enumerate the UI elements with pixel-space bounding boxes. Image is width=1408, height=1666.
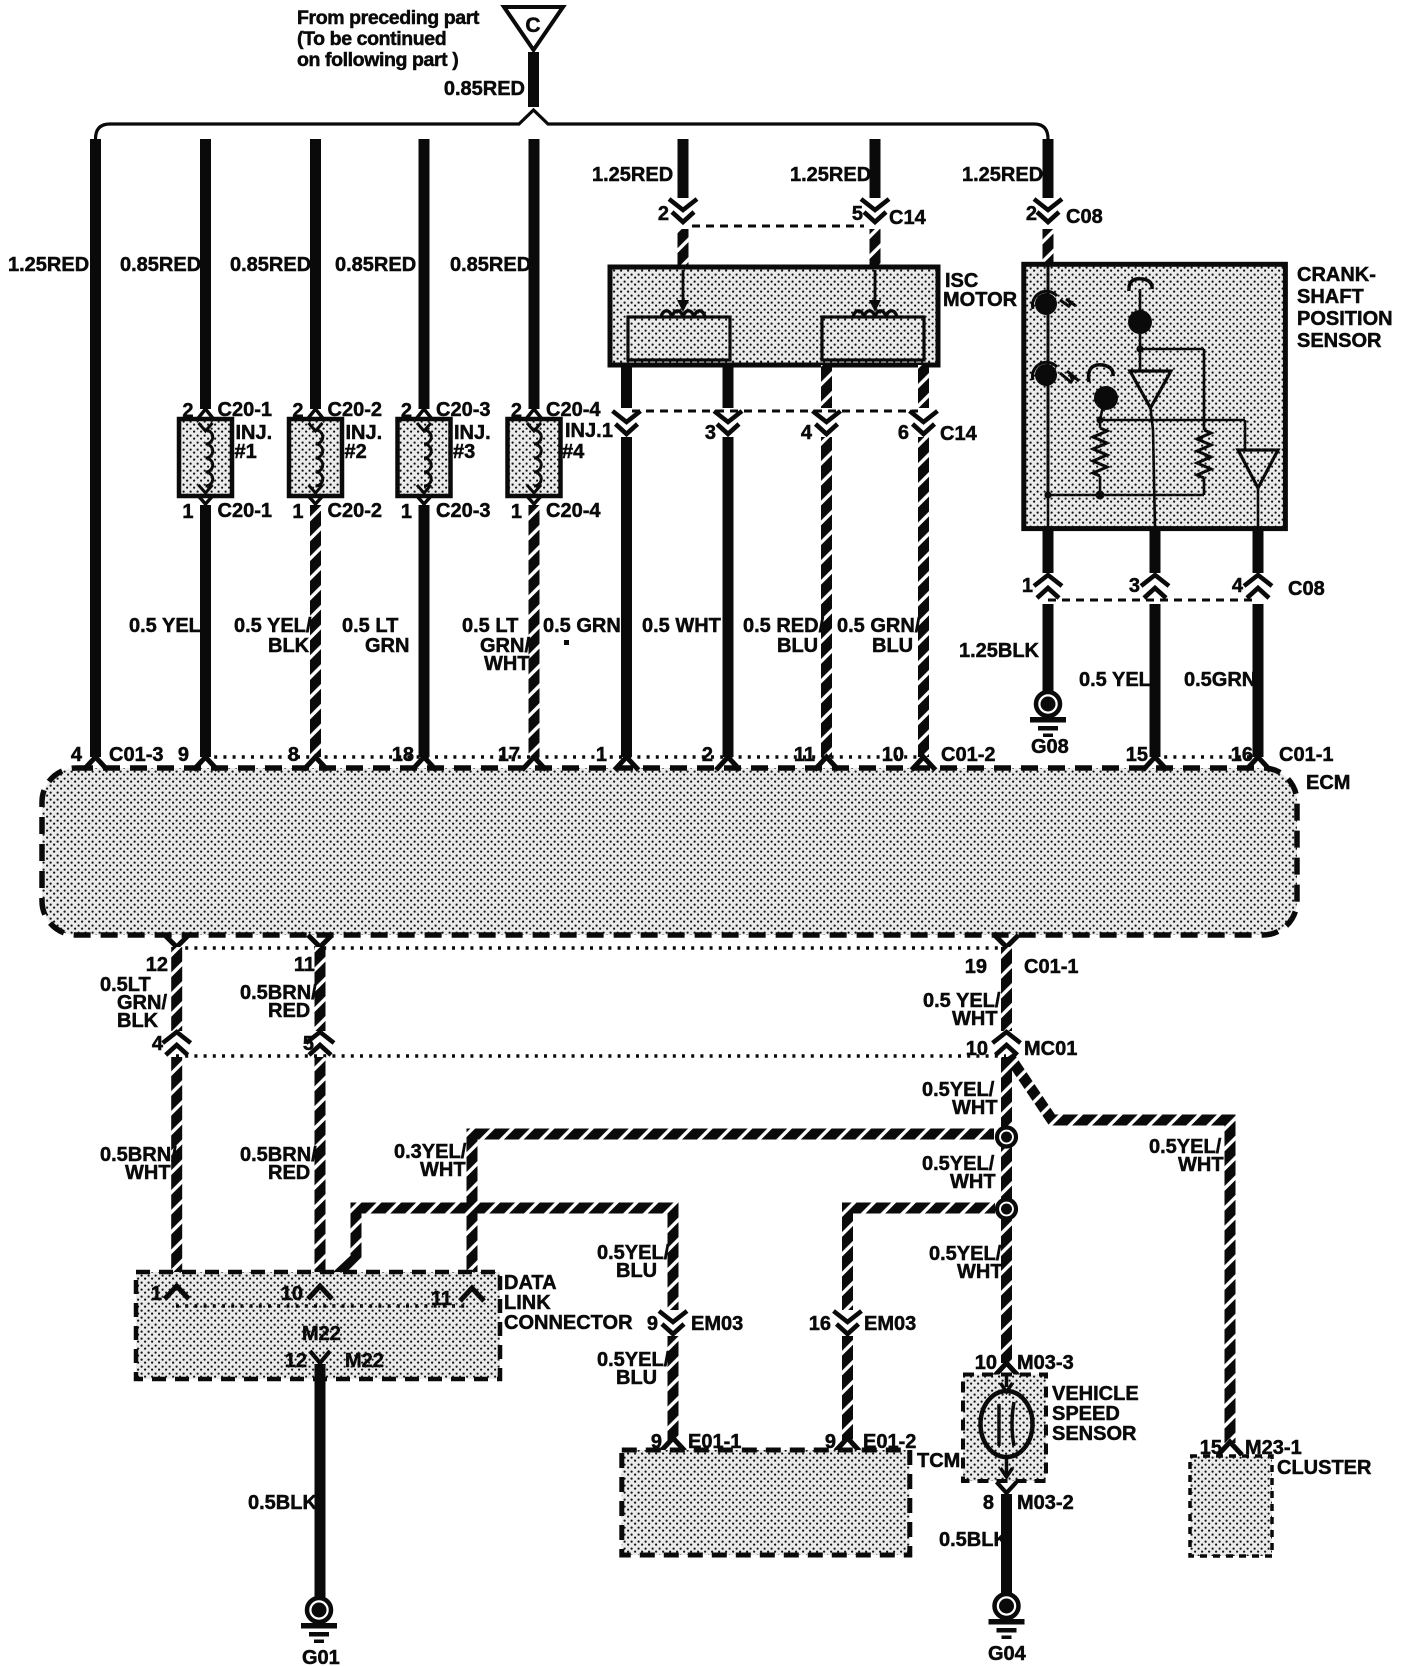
svg-text:C20-4: C20-4	[546, 500, 601, 522]
svg-text:C01-3: C01-3	[109, 744, 163, 766]
ECM pin 8 terminal	[288, 744, 328, 770]
label C01-1 (bottom)	[1024, 956, 1078, 978]
injector INJ #1 pin 1 chevron	[198, 495, 214, 504]
svg-text:SENSOR: SENSOR	[1297, 330, 1382, 352]
svg-text:CRANK-: CRANK-	[1297, 264, 1376, 286]
svg-text:WHT: WHT	[1178, 1154, 1224, 1176]
connector C14 pin 3 chevron	[714, 411, 742, 434]
svg-text:EM03: EM03	[864, 1313, 916, 1335]
ECM pin 18 terminal	[392, 744, 436, 770]
wire 0.5YEL/BLU (EM03 9 to TCM)	[668, 1336, 679, 1440]
label C14	[940, 423, 978, 445]
label TCM	[917, 1450, 960, 1472]
injector INJ #2 name label	[345, 422, 383, 463]
data link connector body	[136, 1272, 500, 1379]
ISC motor (idle speed control)	[610, 267, 938, 365]
label pin 3	[705, 422, 716, 444]
svg-text:0.5 LT: 0.5 LT	[462, 615, 518, 637]
wire to ISC coil B	[870, 229, 881, 268]
label C01-1	[1279, 744, 1333, 766]
label 0.5LT GRN/BLK	[100, 974, 167, 1032]
wire 0.5BRN/RED (ECM 11 to MC01 5)	[315, 947, 326, 1031]
svg-text:5: 5	[852, 203, 863, 225]
VSS pin 10 M03-3 terminal	[975, 1352, 1074, 1376]
svg-text:0.5 YEL: 0.5 YEL	[1079, 669, 1151, 691]
svg-text:WHT: WHT	[420, 1159, 466, 1181]
TCM module body	[622, 1450, 910, 1555]
svg-text:10: 10	[882, 744, 904, 766]
wire ISC out pin 3	[723, 365, 734, 408]
svg-text:C14: C14	[940, 423, 978, 445]
svg-text:10: 10	[281, 1283, 303, 1305]
svg-text:WHT: WHT	[950, 1171, 996, 1193]
svg-text:1: 1	[602, 420, 613, 442]
svg-text:17: 17	[498, 744, 520, 766]
svg-text:RED: RED	[268, 1000, 310, 1022]
svg-text:18: 18	[392, 744, 414, 766]
svg-text:16: 16	[809, 1313, 831, 1335]
svg-text:1.25RED: 1.25RED	[8, 254, 89, 276]
label 0.5YEL/BLU (lower)	[597, 1349, 670, 1389]
injector INJ #2 connector pin 2 label	[292, 399, 382, 422]
label 0.85RED	[335, 254, 416, 276]
svg-text:#2: #2	[345, 441, 367, 463]
off-page connector C (triangle)	[504, 7, 563, 50]
svg-text:0.5GRN: 0.5GRN	[1184, 669, 1256, 691]
junction (splice) on 0.5YEL/WHT	[997, 1128, 1016, 1147]
injector INJ #2 pin 2 chevron	[308, 409, 324, 419]
label C14	[889, 207, 927, 229]
wire 0.5 LT GRN/WHT (INJ #4 to ECM pin 17)	[529, 505, 540, 757]
ground G04	[988, 1594, 1027, 1665]
svg-text:12: 12	[285, 1350, 307, 1372]
ECM pin 19 terminal	[965, 935, 1019, 978]
label 0.5BLK	[248, 1492, 317, 1514]
svg-text:1: 1	[292, 501, 303, 523]
ground G01	[301, 1598, 340, 1666]
ECM pin 9 terminal	[178, 744, 218, 770]
connector MC01 dotted link	[176, 1054, 1006, 1057]
svg-text:0.5 YEL: 0.5 YEL	[129, 615, 201, 637]
svg-text:0.85RED: 0.85RED	[335, 254, 416, 276]
label C08	[1066, 206, 1103, 228]
injector INJ #1 name label	[235, 422, 273, 463]
DLC pins dotted link	[176, 1304, 469, 1307]
connector C08 pin 1 chevron	[1034, 575, 1062, 598]
label 0.5 YEL/WHT	[923, 990, 1001, 1030]
wire 1.25RED stub (ISC coil B)	[870, 139, 881, 198]
svg-text:11: 11	[431, 1288, 452, 1310]
wire ISC out pin 1	[621, 365, 632, 408]
connector MC01 pin 4 chevron	[152, 1032, 191, 1055]
connector C08 dashed link	[1048, 599, 1258, 602]
svg-text:BLK: BLK	[117, 1010, 159, 1032]
svg-text:SPEED: SPEED	[1052, 1403, 1120, 1425]
svg-text:BLU: BLU	[777, 635, 818, 657]
label CLUSTER	[1277, 1457, 1372, 1479]
wire 0.5BLK (DLC 12 to ground G01)	[315, 1364, 326, 1597]
label 0.5 YEL/BLK	[234, 615, 312, 657]
svg-text:VEHICLE: VEHICLE	[1052, 1383, 1139, 1405]
svg-text:CONNECTOR: CONNECTOR	[504, 1312, 633, 1334]
wire DLC10/EM03 rail	[325, 1208, 995, 1310]
label pin 1	[602, 420, 613, 442]
svg-text:1.25RED: 1.25RED	[592, 164, 673, 186]
svg-text:2: 2	[658, 203, 669, 225]
wire crank pin 3	[1150, 528, 1161, 573]
svg-text:WHT: WHT	[484, 653, 530, 675]
injector INJ #3 connector pin 1 label	[401, 500, 491, 523]
svg-text:16: 16	[1231, 744, 1253, 766]
label 0.5 YEL	[1079, 669, 1151, 691]
injector INJ #4 pin 2 chevron	[526, 409, 542, 419]
label 0.5BLK	[939, 1529, 1008, 1551]
TCM pin E01-1 terminal	[651, 1431, 742, 1453]
label 0.5 WHT	[642, 615, 721, 637]
label 0.5BRN/RED	[240, 982, 317, 1022]
label 0.5 LT GRN	[342, 615, 409, 657]
wire 0.5 YEL/BLK (INJ #2 to ECM pin 8)	[310, 505, 321, 757]
wire 1.25RED (to ECM pin 4)	[90, 139, 101, 757]
label 0.5YEL/WHT	[922, 1079, 998, 1119]
label pin 6	[898, 422, 909, 444]
svg-text:C01-1: C01-1	[1024, 956, 1078, 978]
svg-text:TCM: TCM	[917, 1450, 960, 1472]
ground G08	[1030, 692, 1069, 758]
svg-text:19: 19	[965, 956, 987, 978]
svg-text:9: 9	[647, 1313, 658, 1335]
connector C14 pin 2 chevron	[669, 199, 697, 222]
wire branch to cluster (diagonal + across + down)	[1009, 1056, 1230, 1443]
wire 1.25RED stub (crank sensor)	[1043, 139, 1054, 198]
svg-text:M03-3: M03-3	[1017, 1352, 1074, 1374]
DLC pin 11 terminal	[431, 1288, 484, 1310]
connector C14 dashed link (lower)	[632, 410, 918, 413]
wire 0.5 LT GRN (INJ #3 to ECM pin 18)	[419, 505, 430, 757]
label pin 3	[1129, 575, 1140, 597]
ECM pin 4 terminal	[71, 744, 108, 770]
svg-text:11: 11	[794, 744, 815, 766]
label pin 4	[1232, 575, 1244, 597]
svg-text:BLK: BLK	[268, 635, 310, 657]
crankshaft position sensor	[1024, 264, 1286, 528]
label M22 (connector)	[302, 1323, 341, 1345]
connector C14 pin 4 chevron	[813, 411, 841, 434]
svg-text:RED: RED	[268, 1162, 310, 1184]
label 0.5GRN	[1184, 669, 1256, 691]
svg-text:0.5 WHT: 0.5 WHT	[642, 615, 721, 637]
svg-text:0.5 LT: 0.5 LT	[342, 615, 398, 637]
svg-text:WHT: WHT	[952, 1097, 998, 1119]
label C01-3	[109, 744, 163, 766]
label 0.5 RED/BLU	[743, 615, 825, 657]
connector C14 dashed link	[692, 225, 864, 228]
svg-text:M22: M22	[345, 1350, 384, 1372]
connector EM03 pin 9 chevron	[647, 1311, 743, 1335]
ECM pin 10 terminal	[882, 744, 936, 770]
svg-text:4: 4	[1232, 575, 1244, 597]
label 0.5BRN/WHT	[100, 1144, 177, 1184]
label pin 4	[801, 422, 813, 444]
wire (EM03 16 to TCM)	[842, 1336, 853, 1440]
svg-text:G04: G04	[988, 1643, 1027, 1665]
injector INJ #1 pin 2 chevron	[198, 409, 214, 419]
label 0.85RED	[120, 254, 201, 276]
label 0.5 GRN	[543, 615, 621, 645]
junction (splice) on 0.5YEL/WHT lower	[997, 1200, 1016, 1219]
label 0.5YEL/BLU	[597, 1242, 670, 1282]
wire 0.85RED (to INJ #2)	[310, 139, 321, 409]
svg-text:1.25RED: 1.25RED	[790, 164, 871, 186]
label 0.5YEL/WHT	[922, 1153, 996, 1193]
wire to crank sensor	[1043, 229, 1054, 265]
wire 0.85RED (to INJ #4)	[529, 139, 540, 409]
svg-text:WHT: WHT	[125, 1162, 171, 1184]
injector INJ #3 pin 2 chevron	[416, 409, 432, 419]
svg-text:ECM: ECM	[1306, 772, 1350, 794]
injector INJ #1 (fuel injector coil)	[179, 419, 232, 496]
cluster module body	[1190, 1456, 1272, 1556]
svg-text:8: 8	[288, 744, 299, 766]
svg-text:6: 6	[898, 422, 909, 444]
ECM pin 16 terminal	[1231, 744, 1270, 770]
ECM pin 11 terminal	[794, 744, 839, 770]
svg-text:15: 15	[1126, 744, 1148, 766]
wire 0.5YEL/WHT (MC01 10 down to speed sensor)	[1001, 1057, 1012, 1363]
svg-text:G01: G01	[302, 1647, 340, 1666]
svg-text:From preceding part: From preceding part	[297, 7, 480, 29]
svg-text:0.5BLK: 0.5BLK	[939, 1529, 1008, 1551]
svg-text:0.5 GRN: 0.5 GRN	[543, 615, 621, 637]
ECM pin 2 terminal	[702, 744, 740, 770]
svg-text:1: 1	[182, 501, 193, 523]
svg-text:#4: #4	[562, 441, 585, 463]
svg-text:#3: #3	[453, 441, 475, 463]
label ECM	[1306, 772, 1350, 794]
label pin 5	[852, 203, 863, 225]
connector EM03 pin 16 chevron	[809, 1311, 917, 1335]
svg-text:GRN: GRN	[365, 635, 409, 657]
svg-text:#1: #1	[235, 441, 257, 463]
label C08	[1288, 578, 1325, 600]
svg-text:10: 10	[975, 1352, 997, 1374]
svg-text:M22: M22	[302, 1323, 341, 1345]
svg-text:8: 8	[983, 1492, 994, 1514]
injector INJ #2 pin 1 chevron	[308, 495, 324, 504]
svg-text:4: 4	[71, 744, 83, 766]
wire 0.5 WHT (to ECM pin 2)	[723, 437, 734, 757]
wire 1.25RED stub (ISC coil A)	[678, 139, 689, 198]
wire 0.5 YEL (to ECM pin 15)	[1150, 604, 1161, 757]
svg-text:0.5 GRN/: 0.5 GRN/	[837, 615, 921, 637]
connector MC01 pin 10 chevron	[966, 1032, 1021, 1060]
svg-text:WHT: WHT	[957, 1261, 1003, 1283]
svg-text:SENSOR: SENSOR	[1052, 1423, 1137, 1445]
wire 0.5GRN (to ECM pin 16)	[1253, 604, 1264, 757]
injector INJ #3 name label	[453, 422, 491, 463]
injector INJ #3 connector pin 2 label	[401, 399, 491, 422]
injector INJ #2 connector pin 1 label	[292, 500, 382, 523]
svg-text:11: 11	[294, 954, 315, 976]
ECM pin 12 terminal	[146, 935, 189, 976]
svg-text:LINK: LINK	[504, 1292, 551, 1314]
label VEHICLE SPEED SENSOR	[1052, 1383, 1139, 1445]
injector INJ #4 name label	[562, 420, 602, 463]
connector MC01 pin 5 chevron	[303, 1032, 334, 1055]
injector INJ #4 connector pin 2 label	[511, 399, 601, 422]
label 1.25RED	[8, 254, 89, 276]
svg-text:0.5 YEL/: 0.5 YEL/	[234, 615, 312, 637]
ECM pin 11 terminal	[294, 935, 332, 976]
connector C14 pin 6 chevron	[910, 411, 938, 434]
wire ISC out pin 6	[918, 365, 929, 408]
svg-text:on following part ): on following part )	[297, 49, 458, 71]
svg-text:1: 1	[596, 744, 607, 766]
connector C08 pin 3 chevron	[1141, 575, 1169, 598]
svg-text:SHAFT: SHAFT	[1297, 286, 1364, 308]
label 1.25RED	[962, 164, 1043, 186]
label pin 2	[1026, 203, 1037, 225]
ECM top pins dotted link	[205, 755, 1258, 758]
bus wire (power distribution)	[96, 110, 1049, 139]
svg-text:BLU: BLU	[872, 635, 913, 657]
svg-text:4: 4	[801, 422, 813, 444]
ECM pin 17 terminal	[498, 744, 546, 770]
injector INJ #4 (fuel injector coil)	[508, 419, 561, 496]
injector INJ #1 connector pin 1 label	[182, 500, 272, 523]
svg-text:CLUSTER: CLUSTER	[1277, 1457, 1372, 1479]
label 0.5BRN/RED	[240, 1144, 317, 1184]
DLC pin 10 terminal	[281, 1283, 332, 1305]
wire 0.5LT GRN/BLK (ECM 12 to MC01 4)	[171, 947, 182, 1031]
wire 0.5 GRN/BLU (to ECM pin 10)	[918, 437, 929, 757]
svg-text:C20-1: C20-1	[218, 500, 272, 522]
vehicle speed sensor body	[963, 1374, 1046, 1481]
label 0.5 GRN/BLU	[837, 615, 921, 657]
label 0.5 YEL	[129, 615, 201, 637]
ECM bottom pins dotted link	[176, 946, 1006, 949]
svg-text:WHT: WHT	[952, 1008, 998, 1030]
wire to ISC coil A	[678, 229, 689, 268]
connector C08 pin 4 chevron	[1244, 575, 1272, 598]
label CRANKSHAFT POSITION SENSOR	[1297, 264, 1393, 352]
injector INJ #4 pin 1 chevron	[526, 495, 542, 504]
svg-text:3: 3	[705, 422, 716, 444]
label ISC MOTOR	[943, 270, 1018, 311]
svg-text:M03-2: M03-2	[1017, 1492, 1074, 1514]
svg-text:0.5 RED/: 0.5 RED/	[743, 615, 825, 637]
wire 0.5 YEL (INJ #1 to ECM pin 9)	[200, 505, 211, 757]
svg-text:BLU: BLU	[616, 1367, 657, 1389]
svg-text:3: 3	[1129, 575, 1140, 597]
wire crank pin 1	[1043, 528, 1054, 573]
ECM module body	[42, 768, 1297, 935]
wire 0.5BLK (VSS to ground G04)	[1001, 1494, 1012, 1593]
label DATA LINK CONNECTOR	[504, 1272, 633, 1334]
connector C14 pin 5 chevron	[861, 199, 889, 222]
svg-text:0.85RED: 0.85RED	[450, 254, 531, 276]
injector INJ #3 (fuel injector coil)	[398, 419, 451, 496]
svg-text:5: 5	[303, 1033, 314, 1055]
label 0.85RED	[230, 254, 311, 276]
wire 0.85RED (to INJ #1)	[200, 139, 211, 409]
svg-text:0.85RED: 0.85RED	[120, 254, 201, 276]
injector INJ #2 (fuel injector coil)	[289, 419, 342, 496]
label pin 1	[1022, 575, 1033, 597]
svg-text:9: 9	[178, 744, 189, 766]
label 0.5 LT GRN/WHT	[462, 615, 530, 675]
svg-text:10: 10	[966, 1038, 988, 1060]
svg-text:1: 1	[401, 501, 412, 523]
label 0.5YEL/WHT	[929, 1243, 1003, 1283]
svg-text:BLU: BLU	[616, 1260, 657, 1282]
injector INJ #1 connector pin 2 label	[182, 399, 272, 422]
svg-text:INJ.: INJ.	[565, 420, 602, 442]
label C01-2	[941, 744, 995, 766]
label 1.25RED	[592, 164, 673, 186]
svg-text:MOTOR: MOTOR	[943, 289, 1018, 311]
svg-text:C01-2: C01-2	[941, 744, 995, 766]
VSS pin 8 M03-2 chevron	[983, 1482, 1074, 1514]
connector C14 pin 1 chevron	[613, 411, 641, 434]
wire 0.5 YEL/WHT (ECM 19 to MC01 10)	[1001, 947, 1012, 1031]
svg-text:DATA: DATA	[504, 1272, 557, 1294]
DLC pin 1 terminal	[151, 1283, 189, 1305]
label 0.85RED	[444, 78, 525, 100]
ECM pin 15 terminal	[1126, 744, 1167, 770]
svg-text:0.85RED: 0.85RED	[444, 78, 525, 100]
label 1.25RED	[790, 164, 871, 186]
wire 0.3YEL/WHT (DLC 11 to junction)	[472, 1134, 994, 1292]
svg-text:0.5BLK: 0.5BLK	[248, 1492, 317, 1514]
wire 0.5BRN/WHT (MC01 4 to DLC 1)	[171, 1057, 182, 1286]
svg-text:C: C	[525, 14, 540, 37]
svg-text:1: 1	[151, 1283, 162, 1305]
ECM pin 1 terminal	[596, 744, 639, 770]
wire 0.5 GRN (to ECM pin 1)	[621, 437, 632, 757]
DLC pin 12 chevron	[285, 1350, 384, 1372]
wire 0.5 RED/BLU (to ECM pin 11)	[821, 437, 832, 757]
svg-text:4: 4	[152, 1033, 164, 1055]
svg-text:C08: C08	[1066, 206, 1103, 228]
label pin 2	[658, 203, 669, 225]
svg-text:EM03: EM03	[691, 1313, 743, 1335]
note: from preceding part	[297, 7, 480, 71]
svg-text:C20-3: C20-3	[436, 500, 490, 522]
svg-text:1.25BLK: 1.25BLK	[959, 640, 1040, 662]
svg-text:0.85RED: 0.85RED	[230, 254, 311, 276]
svg-text:12: 12	[146, 954, 168, 976]
wire 0.5BRN/RED (MC01 5 to DLC 10)	[315, 1057, 326, 1284]
svg-text:C14: C14	[889, 207, 927, 229]
svg-text:C20-2: C20-2	[328, 500, 382, 522]
connector C08 pin 2 chevron	[1034, 199, 1062, 222]
svg-text:1: 1	[511, 501, 522, 523]
injector INJ #3 pin 1 chevron	[416, 495, 432, 504]
label 0.85RED	[450, 254, 531, 276]
wire crank pin 4	[1253, 528, 1264, 573]
label MC01	[1024, 1038, 1077, 1060]
svg-text:(To be continued: (To be continued	[297, 28, 446, 50]
svg-text:2: 2	[1026, 203, 1037, 225]
label 0.5YEL/WHT (cluster branch)	[1149, 1136, 1224, 1176]
CLUSTER pin 15 M23-1 terminal	[1200, 1437, 1302, 1459]
label 0.3YEL/WHT	[394, 1141, 467, 1181]
svg-text:POSITION: POSITION	[1297, 308, 1393, 330]
wire 0.85RED from connector C	[528, 52, 539, 107]
svg-text:2: 2	[702, 744, 713, 766]
svg-text:C01-1: C01-1	[1279, 744, 1333, 766]
